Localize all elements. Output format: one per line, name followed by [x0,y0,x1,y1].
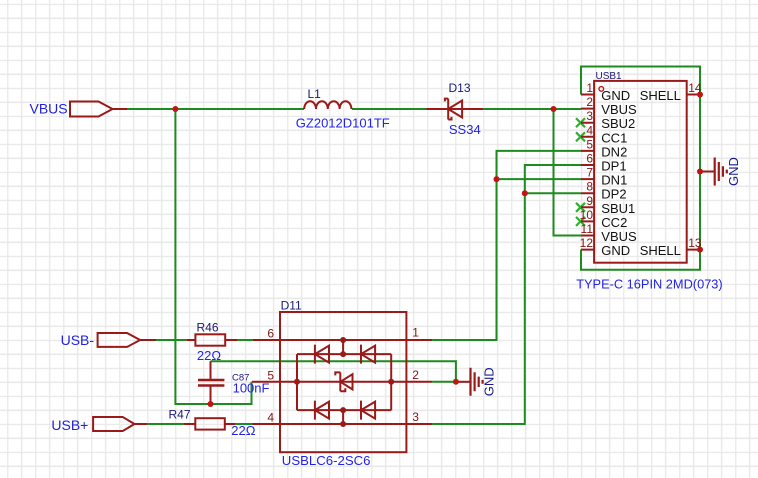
svg-text:11: 11 [581,222,594,236]
svg-text:12: 12 [580,236,594,250]
svg-text:CC2: CC2 [601,215,627,230]
svg-text:VBUS: VBUS [30,101,68,117]
svg-text:5: 5 [586,137,593,151]
svg-text:14: 14 [688,81,702,95]
svg-text:GZ2012D101TF: GZ2012D101TF [296,116,390,131]
svg-text:9: 9 [586,194,593,208]
svg-text:SS34: SS34 [449,122,481,137]
svg-text:USB1: USB1 [596,71,623,82]
svg-text:2: 2 [412,368,419,382]
svg-text:5: 5 [267,368,274,382]
svg-text:4: 4 [267,411,274,425]
svg-text:6: 6 [586,152,593,166]
svg-text:100nF: 100nF [233,381,270,396]
svg-text:13: 13 [688,236,702,250]
svg-text:SHELL: SHELL [640,243,681,258]
svg-text:3: 3 [586,109,593,123]
svg-text:GND: GND [601,243,630,258]
svg-text:R47: R47 [169,408,191,422]
svg-text:GND: GND [482,367,497,396]
svg-text:1: 1 [586,81,593,95]
svg-text:22Ω: 22Ω [197,348,221,363]
svg-text:USB-: USB- [61,332,95,348]
svg-text:4: 4 [586,123,593,137]
svg-text:D13: D13 [449,81,471,95]
svg-text:CC1: CC1 [601,130,627,145]
svg-text:3: 3 [412,410,419,424]
svg-text:SHELL: SHELL [640,88,681,103]
svg-text:DP2: DP2 [601,187,626,202]
svg-text:8: 8 [586,180,593,194]
svg-text:TYPE-C 16PIN 2MD(073): TYPE-C 16PIN 2MD(073) [576,277,723,292]
svg-text:L1: L1 [308,87,322,101]
svg-text:6: 6 [267,327,274,341]
svg-text:10: 10 [580,208,594,222]
svg-text:SBU2: SBU2 [601,116,635,131]
svg-text:22Ω: 22Ω [231,423,255,438]
svg-text:GND: GND [726,157,741,186]
svg-text:GND: GND [601,88,630,103]
svg-text:USB+: USB+ [51,417,88,433]
svg-text:DP1: DP1 [601,159,626,174]
svg-text:SBU1: SBU1 [601,201,635,216]
svg-text:VBUS: VBUS [601,102,637,117]
svg-text:7: 7 [586,166,593,180]
svg-text:D11: D11 [281,299,302,313]
svg-text:DN2: DN2 [601,144,627,159]
svg-text:USBLC6-2SC6: USBLC6-2SC6 [282,453,371,468]
svg-text:VBUS: VBUS [601,229,637,244]
svg-text:DN1: DN1 [601,173,627,188]
svg-text:1: 1 [412,326,419,340]
svg-text:2: 2 [586,95,593,109]
svg-text:R46: R46 [197,321,219,335]
